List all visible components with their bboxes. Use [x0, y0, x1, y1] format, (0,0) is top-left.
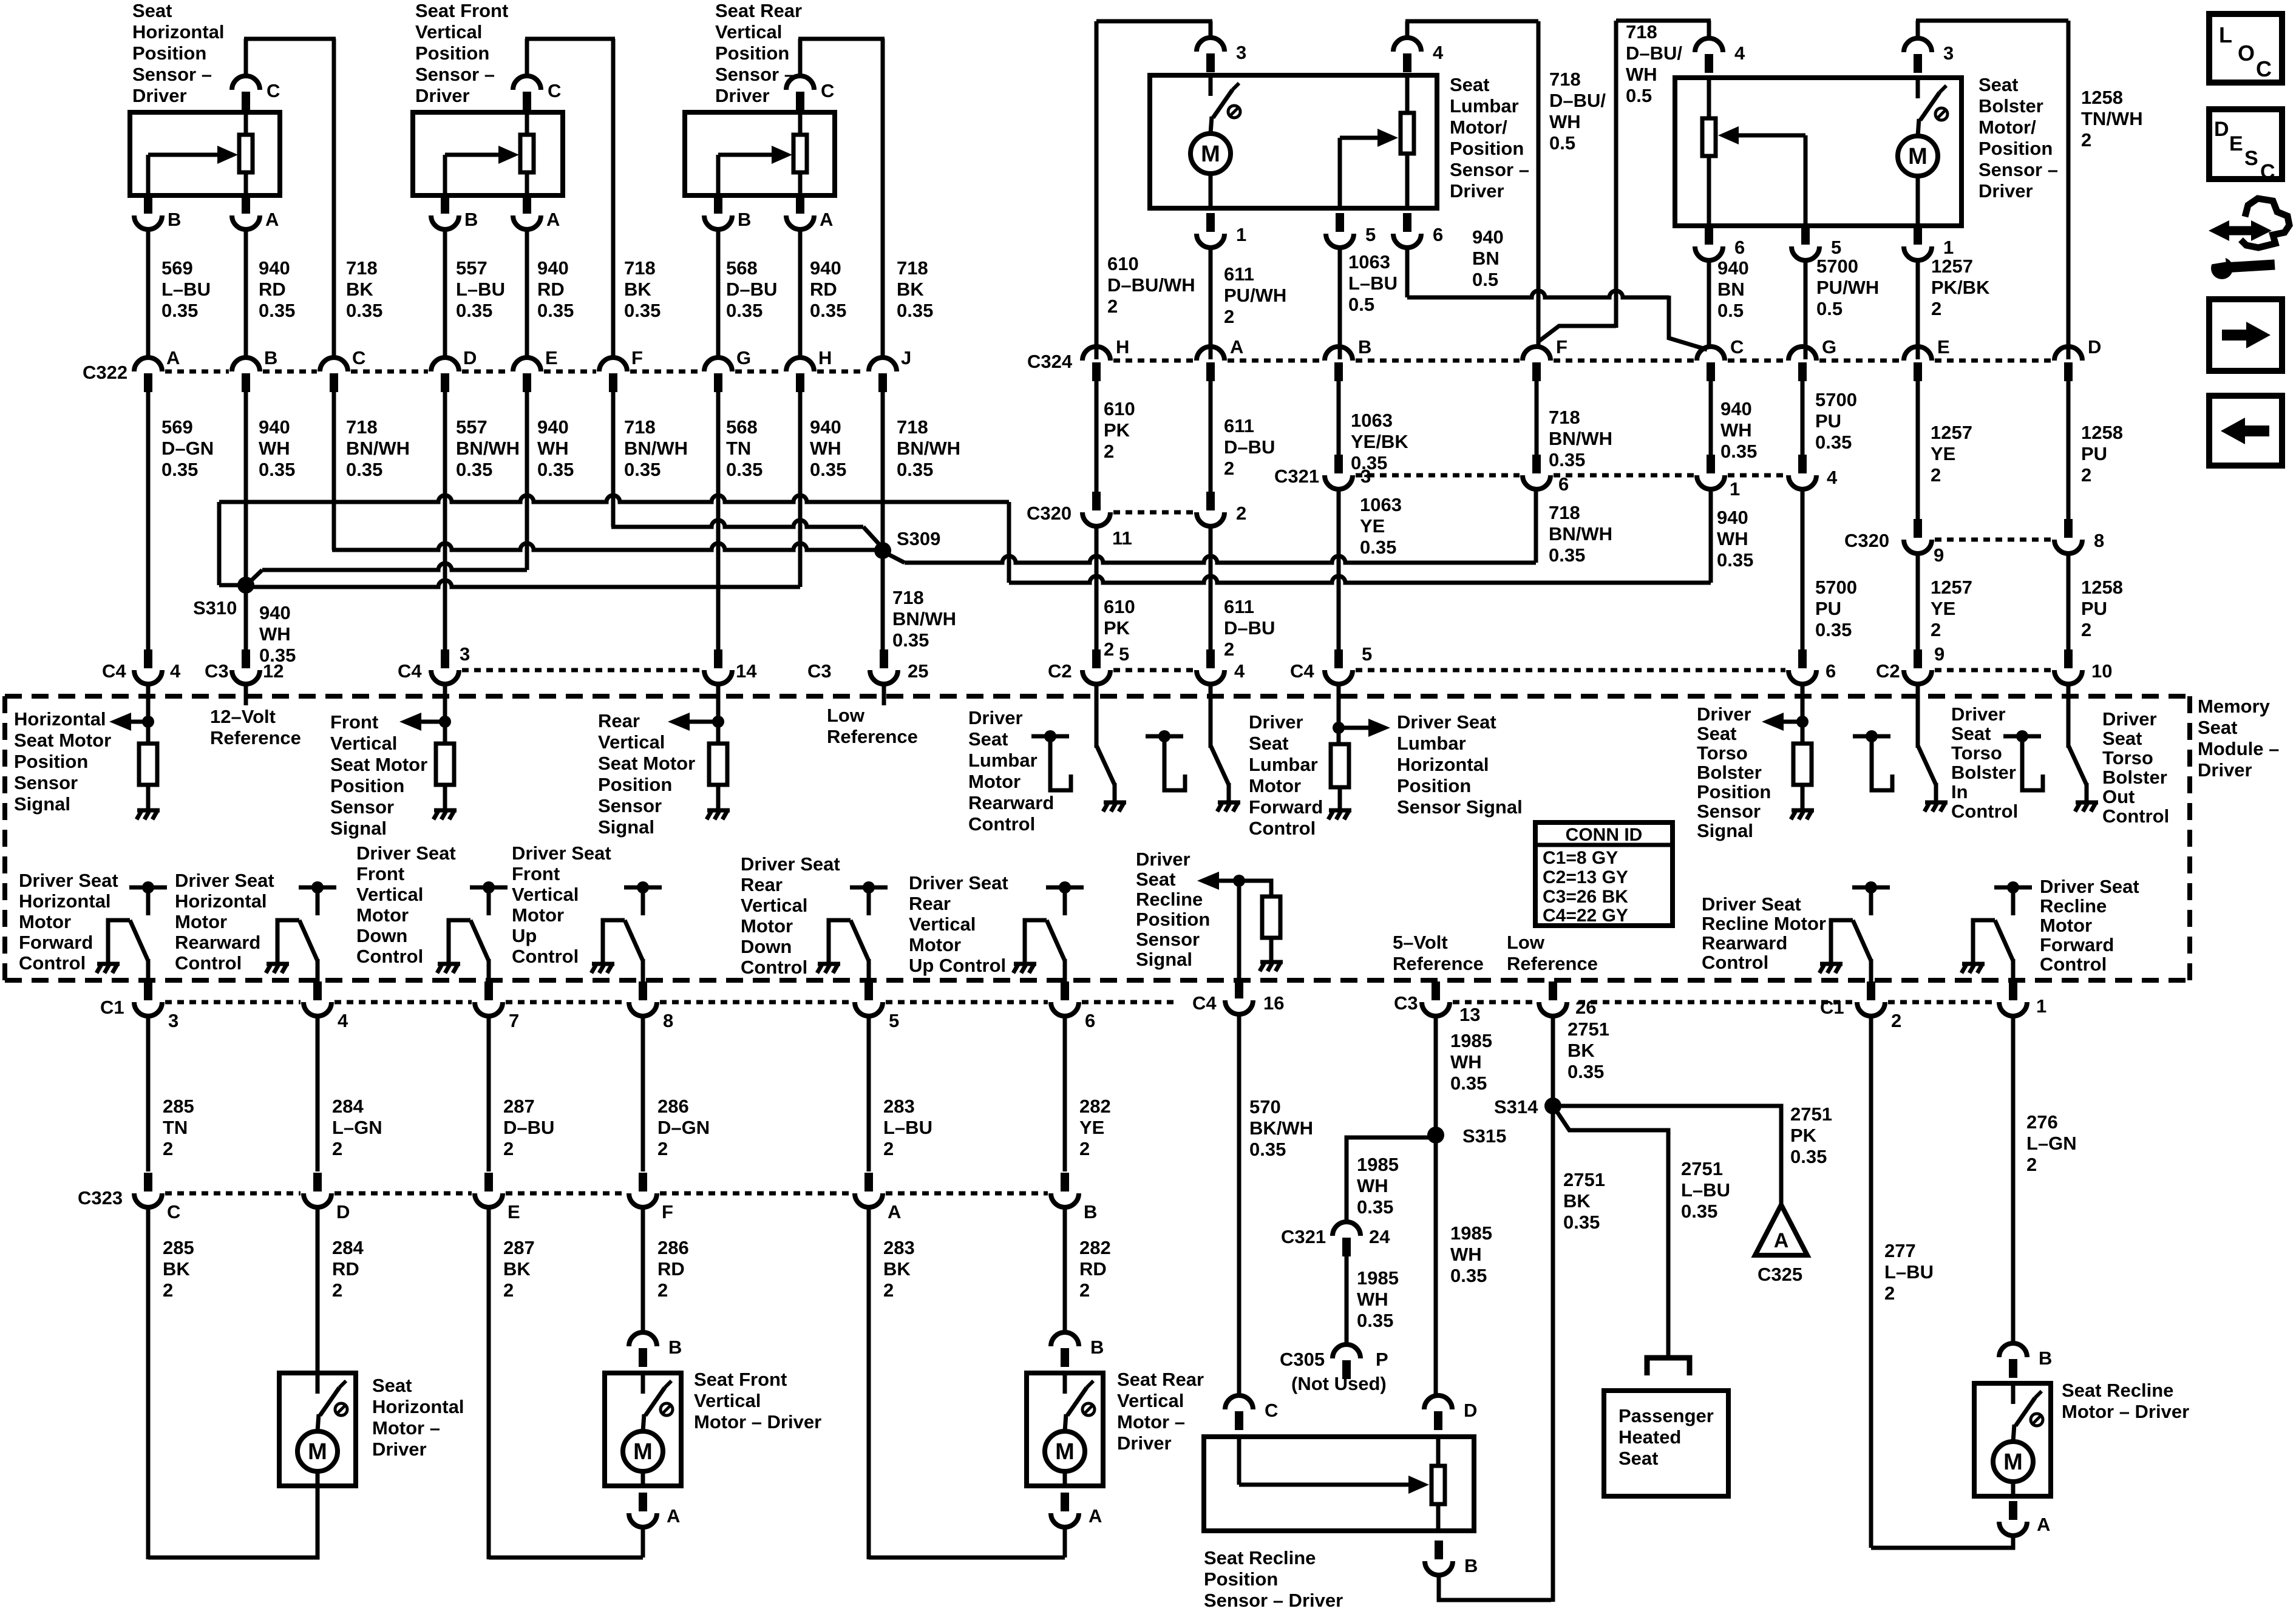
- svg-text:C: C: [1730, 336, 1744, 358]
- svg-text:M: M: [1055, 1439, 1075, 1465]
- driver seat torso bolster position sensor wire resistor to ground: [1801, 785, 1805, 809]
- svg-text:D: D: [1464, 1400, 1477, 1421]
- wire D C322 to C4 pin3: [443, 392, 447, 654]
- lumbar horizontal sensor wire to ground: [1338, 787, 1342, 809]
- bus 718 BN/WH diagonal into S309: [863, 527, 883, 548]
- C320 pin 8: [2054, 519, 2082, 554]
- C322 dashed 405-550: [263, 370, 317, 374]
- svg-text:8: 8: [2094, 530, 2104, 551]
- wire 610 PK C324H to C320 pin11: [1095, 381, 1099, 493]
- wire label 940 BN 0.5 left: [1472, 226, 1504, 290]
- C324 dashed 2205-2531: [1356, 359, 1520, 363]
- svg-text:B: B: [1464, 1555, 1478, 1576]
- wire into module at x1994: [1209, 683, 1213, 705]
- driver seat lumbar motor rearward control ground: [1103, 802, 1126, 812]
- wire 718 bolster top loop: [1616, 19, 1711, 23]
- module row dashed 5-4: [1113, 668, 1194, 673]
- pin label B sensor B2: [464, 209, 478, 230]
- C322 pin letter J: [901, 347, 911, 368]
- connector C320 name (9/8): [1844, 530, 1889, 551]
- motor3 pin label B: [1090, 1337, 1104, 1358]
- C322 pin letter C: [352, 347, 365, 368]
- seat front vertical motor box: [605, 1373, 681, 1486]
- rear vertical seat motor position sensor ground: [707, 810, 730, 819]
- svg-text:J: J: [901, 347, 911, 368]
- label Memory Seat Module - Driver: [2198, 696, 2279, 781]
- wire 940 BN step to C324 C: [1669, 296, 1707, 350]
- lumbar assembly box: [1150, 75, 1437, 208]
- svg-text:A: A: [888, 1201, 901, 1222]
- recline position sensor branch: [1239, 881, 1271, 897]
- label Rear Vertical Seat Motor Position Sensor Signal: [598, 710, 695, 838]
- wire label 718 BK above C322 at x1028: [624, 257, 661, 321]
- recline motor pin label B: [2039, 1347, 2052, 1369]
- label Driver Seat Recline Position Sensor Signal: [1136, 849, 1210, 970]
- driver seat torso bolster in control contact T-bar with dot: [1853, 730, 1890, 742]
- driver seat rear vertical motor up control ground arm: [1025, 920, 1047, 963]
- C4 pin 16: [1225, 980, 1253, 1014]
- driver seat lumbar motor forward control contact T-bar with dot: [1146, 730, 1183, 742]
- svg-text:S314: S314: [1494, 1096, 1538, 1117]
- driver seat front vertical motor up control ground arm: [603, 920, 625, 963]
- wire 287 C1 to C323: [487, 1016, 491, 1171]
- driver seat torso bolster position sensor junction dot: [1796, 716, 1809, 728]
- connector C1 name left: [100, 997, 124, 1018]
- svg-text:D: D: [463, 347, 477, 368]
- wire 276 L-GN C1 pin1 to recline motor: [2011, 1016, 2016, 1343]
- potentiometer inside sensor B2: [520, 112, 534, 195]
- motor2 pin label B: [668, 1337, 682, 1358]
- wire 610 top loop: [1096, 19, 1212, 24]
- C323 pin letter A: [888, 1201, 901, 1222]
- wire motor2 pinA down: [641, 1527, 645, 1558]
- wire label 1258 TN/WH 2: [2081, 87, 2143, 151]
- svg-text:M: M: [633, 1439, 653, 1465]
- driver seat rear vertical motor up control switch blade: [1047, 920, 1065, 961]
- svg-text:M: M: [1908, 144, 1927, 169]
- svg-text:P: P: [1376, 1349, 1388, 1370]
- module row pin 10 at x3407: [2054, 649, 2082, 684]
- C1 pin 4: [304, 981, 331, 1016]
- wire label 1258 PU 2 upper: [2081, 422, 2123, 486]
- S309 outgoing diagonal: [885, 552, 905, 563]
- module row dashed 9-10: [1935, 668, 2051, 673]
- C322 pin letter A: [166, 347, 180, 368]
- C323 pin A: [855, 1173, 883, 1207]
- wire link motor1 bottom: [148, 1486, 318, 1558]
- wire label 569 D&#8211;GN below C322 at x266: [161, 416, 214, 480]
- pin A sensor B3: [786, 195, 814, 229]
- C323 pin B: [1051, 1173, 1079, 1207]
- wire B C322 through S310 to C3 pin12: [244, 392, 248, 654]
- bus 940 WH from wire H to S310: [248, 580, 800, 587]
- svg-text:L: L: [2219, 22, 2232, 47]
- label Not Used: [1291, 1373, 1387, 1394]
- svg-text:5: 5: [889, 1010, 899, 1031]
- C322 pin G: [704, 358, 732, 392]
- wire 1985 WH C321 pin24 to C305: [1345, 1256, 1349, 1343]
- svg-text:A: A: [1089, 1505, 1102, 1527]
- wire link motor2 bottom: [489, 1556, 643, 1560]
- driver seat lumbar motor rearward control contact cup: [1050, 742, 1071, 790]
- C3 dashed 13-26: [1453, 1000, 1536, 1005]
- C1 pin label 6: [1085, 1010, 1095, 1031]
- C324 dashed 1994-2205: [1228, 359, 1322, 363]
- svg-text:B: B: [1090, 1337, 1104, 1358]
- lumbar pin 5: [1326, 213, 1354, 248]
- bus 940 WH left arm to S310: [219, 583, 242, 588]
- recline position sensor wire: [1237, 881, 1241, 979]
- top loop wire sensor B2: [525, 37, 615, 41]
- driver seat rear vertical motor up control ground: [1013, 964, 1036, 973]
- sensor box B3 (position sensor): [685, 112, 835, 195]
- C321 pin label 1: [1730, 478, 1740, 500]
- C322 pin D: [431, 358, 459, 392]
- connector C2 name right: [1876, 660, 1900, 682]
- wire into module at x244: [146, 683, 151, 705]
- svg-text:A: A: [546, 209, 560, 230]
- label Seat Front Vertical Motor - Driver: [694, 1369, 821, 1432]
- svg-text:940WH0.35: 940WH0.35: [1720, 398, 1757, 462]
- C323 pin D: [304, 1173, 331, 1207]
- C1 dashed 244-523: [165, 1000, 301, 1005]
- C322 dashed 1318-1454: [817, 370, 866, 374]
- pin label B sensor B3: [738, 209, 751, 230]
- svg-text:(Not Used): (Not Used): [1291, 1373, 1387, 1394]
- label Driver Seat Recline Motor Rearward Control: [1702, 893, 1826, 973]
- recline sensor pin D: [1424, 1395, 1452, 1430]
- wire 1063 lumbar pin5 to C324 B: [1338, 247, 1342, 359]
- wire 1258 TN/WH drop to C324 D: [2067, 21, 2071, 359]
- pin label A sensor B2: [546, 209, 560, 230]
- connector C3 name left: [205, 660, 229, 682]
- C324 pin letter F: [1556, 336, 1567, 358]
- module row dashed 3-14: [462, 668, 701, 673]
- C1 dashed 1431-1754: [886, 1000, 1048, 1005]
- wire label 286 RD below C323: [657, 1237, 689, 1301]
- wire label 718 BN/WH 0.35 upper: [1549, 407, 1612, 470]
- svg-text:S309: S309: [897, 528, 940, 549]
- module pin label 9 (C2): [1934, 643, 1944, 665]
- lumbar pin label 4: [1433, 42, 1444, 63]
- wire label 5700 PU 0.35 lower: [1815, 577, 1857, 640]
- module pin label 12: [263, 660, 284, 682]
- C324 pin G: [1788, 347, 1816, 381]
- front vertical seat motor position sensor ground: [433, 810, 457, 819]
- label Driver Seat Front Vertical Motor Up Control: [512, 842, 611, 967]
- wire label 5700 PU/WH 0.5: [1816, 256, 1879, 319]
- svg-text:7: 7: [509, 1010, 519, 1031]
- svg-text:A: A: [166, 347, 180, 368]
- svg-text:9: 9: [1934, 643, 1944, 665]
- driver seat horizontal motor forward control contact stub: [146, 890, 151, 915]
- recline position sensor junction dot: [1233, 875, 1245, 887]
- wire 1985 WH C3 pin13 down: [1434, 1016, 1438, 1395]
- driver seat torso bolster out control wire from pin: [2067, 683, 2071, 748]
- svg-text:B: B: [2039, 1347, 2052, 1369]
- wire 5700 PU C321 pin4 to C4 pin6: [1801, 489, 1805, 654]
- svg-text:3: 3: [1236, 42, 1246, 63]
- potentiometer inside sensor B3: [793, 112, 807, 195]
- C1 pin label 4: [338, 1010, 348, 1031]
- svg-text:O: O: [2238, 41, 2255, 66]
- memory seat module dashed border: [5, 696, 2190, 980]
- wire label 1985 WH 0.35 b: [1357, 1154, 1399, 1218]
- junction S310: [237, 577, 254, 594]
- connector C2 name: [1048, 660, 1072, 682]
- label Seat Rear Vertical Motor - Driver: [1117, 1369, 1204, 1454]
- svg-text:4: 4: [1734, 42, 1745, 64]
- svg-text:5: 5: [1365, 224, 1376, 245]
- wire 285 C1 to C323: [146, 1016, 151, 1171]
- C320 pin label 8: [2094, 530, 2104, 551]
- C322 pin letter D: [463, 347, 477, 368]
- svg-text:C3: C3: [205, 660, 229, 682]
- front vertical seat motor position sensor wire resistor to ground: [443, 785, 447, 809]
- connector C4 name left: [102, 660, 126, 682]
- wire 718 BN/WH C324F to C321 pin6: [1535, 381, 1539, 456]
- bus 940 WH riser to C321 pin1: [1709, 489, 1713, 583]
- recline sensor pin C: [1225, 1395, 1253, 1430]
- wire label 1257 YE 2 upper: [1931, 422, 1972, 486]
- lumbar motor M with switch: [1190, 75, 1240, 208]
- wire 285 BK C323 C down: [146, 1208, 151, 1559]
- driver seat torso bolster in control switch blade: [1918, 745, 1936, 801]
- front vertical seat motor position sensor resistor: [436, 744, 454, 785]
- icon wrench with double arrow: [2209, 198, 2289, 279]
- seat recline motor M: [1993, 1383, 2043, 1496]
- driver seat horizontal motor forward control contact T-bar with dot: [129, 881, 167, 893]
- wire bolster pin3 up: [1916, 21, 1920, 39]
- bolster pin 6: [1695, 226, 1723, 260]
- wire label 718 D-BU/WH 0.5 right: [1626, 21, 1682, 106]
- C1 dashed 523-805: [335, 1000, 472, 1005]
- driver seat recline motor forward control contact stub: [2011, 890, 2016, 915]
- svg-text:16: 16: [1263, 992, 1284, 1014]
- wire 1257 YE C324E to C320 pin9: [1916, 381, 1920, 520]
- wire label 282 YE: [1079, 1096, 1111, 1159]
- C1 pin 7: [475, 981, 503, 1016]
- motor3 pin label A: [1089, 1505, 1102, 1527]
- svg-text:C3: C3: [1394, 992, 1418, 1014]
- wire label 2751 BK 0.35 upper: [1567, 1019, 1609, 1082]
- recline position sensor resistor: [1262, 897, 1280, 938]
- recline motor pin B: [1999, 1343, 2027, 1378]
- wire 2751 L-BU branch to heated seat: [1555, 1108, 1668, 1358]
- svg-text:24: 24: [1369, 1226, 1390, 1247]
- svg-text:1: 1: [2036, 995, 2046, 1017]
- svg-text:A: A: [1774, 1229, 1789, 1252]
- label Seat Bolster Motor/Position Sensor - Driver: [1978, 74, 2058, 202]
- bolster pin 4: [1695, 38, 1723, 73]
- C320 pin label 9: [1934, 544, 1944, 566]
- wire 277 L-BU C1 pin2 down: [1869, 1016, 1873, 1548]
- connector C324 name: [1027, 351, 1073, 372]
- pin C sensor B3: [786, 76, 814, 110]
- bus 940 WH left leg: [217, 502, 222, 585]
- svg-text:4: 4: [1827, 467, 1838, 488]
- svg-text:C4: C4: [1192, 992, 1217, 1014]
- wire 610 D-BU/WH drop: [1095, 21, 1099, 359]
- driver seat lumbar motor forward control switch blade: [1211, 745, 1229, 801]
- module row pin 14 at x1183: [704, 649, 732, 684]
- lumbar horizontal sensor ground: [1328, 810, 1351, 819]
- C322 dashed 868-1010: [544, 370, 596, 374]
- bus 940 WH lower run to C321 pin1: [1009, 576, 1711, 583]
- svg-text:940WH0.35: 940WH0.35: [1717, 507, 1753, 571]
- potentiometer inside sensor B1: [239, 112, 253, 195]
- C321 pin label 6: [1558, 473, 1569, 495]
- C324 dashed 2818-2969: [1728, 359, 1785, 363]
- wire 1063 C324B to C321 pin3: [1337, 381, 1341, 456]
- wire 282 RD C323 B to motor3 pinB: [1063, 1208, 1067, 1333]
- driver seat front vertical motor down control switch blade: [470, 920, 489, 961]
- C322 pin letter E: [545, 347, 558, 368]
- motor2 pin A: [629, 1493, 657, 1527]
- bolster potentiometer: [1702, 78, 1716, 226]
- pin label A sensor B3: [820, 209, 833, 230]
- C320 pin 2: [1197, 492, 1224, 526]
- svg-text:M: M: [2003, 1449, 2023, 1475]
- C321 dashed 2205-2531: [1356, 473, 1520, 478]
- svg-text:940WH0.35: 940WH0.35: [259, 416, 295, 480]
- wire link recline motor bottom: [1871, 1536, 2013, 1548]
- wire label 940 RD above C322 at x426: [259, 257, 295, 321]
- svg-text:C2: C2: [1876, 660, 1900, 682]
- pin A sensor B2: [513, 195, 541, 229]
- driver seat horizontal motor forward control ground: [97, 964, 120, 973]
- svg-text:CONN ID: CONN ID: [1566, 825, 1643, 845]
- wire label 1257 PK/BK 2: [1931, 256, 1990, 319]
- svg-text:C305: C305: [1280, 1349, 1325, 1370]
- C321 pin 3: [1325, 455, 1353, 489]
- bolster motor M with switch: [1898, 78, 1948, 226]
- wire sensor B1 pin A to C322: [244, 229, 248, 359]
- driver seat lumbar motor forward control contact cup: [1164, 742, 1185, 790]
- icon left arrow box: [2209, 396, 2282, 466]
- module pin label 25: [908, 660, 928, 682]
- wire label 940 WH below C322 at x885: [537, 416, 574, 480]
- label 5-Volt Reference: [1393, 932, 1484, 974]
- bus 940 WH upper run: [219, 495, 1009, 502]
- module row pin 3 at x733: [431, 649, 459, 684]
- wire 1257 YE C320 pin9 to C2 pin9: [1916, 554, 1920, 654]
- wire into module at x3159: [1916, 683, 1920, 705]
- wire label 610 D-BU/WH 2: [1107, 253, 1195, 317]
- wire 286 RD C323 F to motor2 pinB: [641, 1208, 645, 1333]
- svg-text:A: A: [2037, 1514, 2050, 1535]
- svg-text:A: A: [820, 209, 833, 230]
- C1 pin 3: [134, 981, 162, 1016]
- C322 pin B: [232, 358, 260, 392]
- wire label 569 L&#8211;BU above C322 at x266: [161, 257, 211, 321]
- wire label 1985 WH 0.35 c: [1450, 1222, 1492, 1286]
- sensor box B1 (position sensor): [130, 112, 280, 195]
- wire into module at x733: [443, 683, 447, 705]
- recline sensor potentiometer: [1432, 1437, 1445, 1531]
- bus 718 BN/WH riser to C321 pin6: [1534, 489, 1538, 563]
- recline position sensor arrow: [1197, 872, 1239, 890]
- junction S314: [1544, 1097, 1561, 1114]
- label Seat Position Sensor B3: [715, 0, 802, 106]
- label Driver Seat Lumbar Motor Forward Control: [1249, 711, 1323, 839]
- wire 2751 PK branch: [1555, 1106, 1781, 1205]
- icon right arrow box: [2209, 299, 2282, 371]
- connector C325 triangle A: [1755, 1205, 1807, 1255]
- svg-text:C320: C320: [1844, 530, 1889, 551]
- CONN ID table: [1535, 822, 1673, 926]
- C320 pin 11: [1082, 492, 1110, 526]
- wire label 718 D-BU/WH 0.5 left: [1549, 69, 1606, 154]
- rear vertical seat motor position sensor signal arrow: [668, 713, 718, 731]
- lumbar pin label 3: [1236, 42, 1246, 63]
- svg-text:C322: C322: [83, 362, 127, 383]
- wire label 611 PU/WH 2: [1224, 263, 1286, 327]
- driver seat rear vertical motor up control wire to C1 pin: [1063, 959, 1067, 995]
- svg-text:D: D: [2214, 118, 2229, 141]
- seat rear vertical motor box: [1027, 1373, 1103, 1486]
- wire label 568 D&#8211;BU above C322 at x1196: [726, 257, 777, 321]
- connector C4 name bottom: [1192, 992, 1217, 1014]
- driver seat horizontal motor rearward control ground: [266, 964, 289, 973]
- wire label 285 TN: [163, 1096, 194, 1159]
- driver seat front vertical motor down control wire to C1 pin: [487, 959, 491, 995]
- C321 pin 24: [1333, 1222, 1360, 1256]
- wire label 2751 PK 0.35: [1790, 1103, 1832, 1167]
- loop drop wire sensor B1 to C322: [332, 39, 336, 359]
- C1 dashed 1059-1431: [660, 1000, 852, 1005]
- C321 pin label 24: [1369, 1226, 1390, 1247]
- wire motor3 pinA down: [1063, 1527, 1067, 1558]
- C1 dashed toward recline pins: [1578, 1000, 1854, 1005]
- bus 940 WH drop at x1662: [1007, 502, 1011, 583]
- icon DESC box: [2209, 109, 2282, 183]
- driver seat torso bolster position sensor ground: [1791, 810, 1814, 819]
- C3 pin label 26: [1575, 997, 1596, 1018]
- driver seat horizontal motor rearward control switch blade: [299, 920, 318, 961]
- svg-text:1: 1: [1236, 224, 1246, 245]
- label Driver Seat Lumbar Horizontal Position Sensor Signal: [1397, 711, 1523, 818]
- svg-text:4: 4: [1433, 42, 1444, 63]
- C323 pin letter C: [167, 1201, 180, 1222]
- top loop wire sensor B3: [798, 37, 885, 41]
- wire H C322 down to 940 bus: [798, 392, 803, 587]
- svg-text:G: G: [736, 347, 751, 368]
- svg-text:8: 8: [663, 1010, 673, 1031]
- label Driver Seat Rear Vertical Motor Up Control: [909, 872, 1008, 976]
- svg-text:5: 5: [1119, 643, 1129, 665]
- label Driver Seat Torso Bolster In Control: [1951, 703, 2018, 822]
- icon LOC box: [2209, 14, 2282, 83]
- C320 pin label 11: [1112, 527, 1132, 549]
- wire into module at x1183: [716, 683, 721, 705]
- C1 pin 8: [629, 981, 657, 1016]
- bolster wiper arrow: [1718, 126, 1805, 226]
- svg-text:3: 3: [460, 643, 470, 665]
- wire label 1063 L-BU 0.5: [1348, 251, 1398, 315]
- driver seat recline motor rearward control ground: [1819, 964, 1843, 973]
- bolster assembly box: [1675, 78, 1961, 226]
- C324 pin H: [1082, 347, 1110, 381]
- driver seat torso bolster position sensor wire stub: [1801, 683, 1805, 744]
- svg-text:4: 4: [170, 660, 181, 682]
- bus 940 WH from wire E: [262, 563, 527, 570]
- C322 pin J: [869, 358, 897, 392]
- svg-text:C2=13 GY: C2=13 GY: [1543, 867, 1628, 887]
- wire 611 lumbar pin1 to C324 A: [1209, 247, 1213, 359]
- driver seat torso bolster position sensor resistor: [1793, 744, 1812, 785]
- wire A C322 to C4 pin4: [146, 392, 151, 654]
